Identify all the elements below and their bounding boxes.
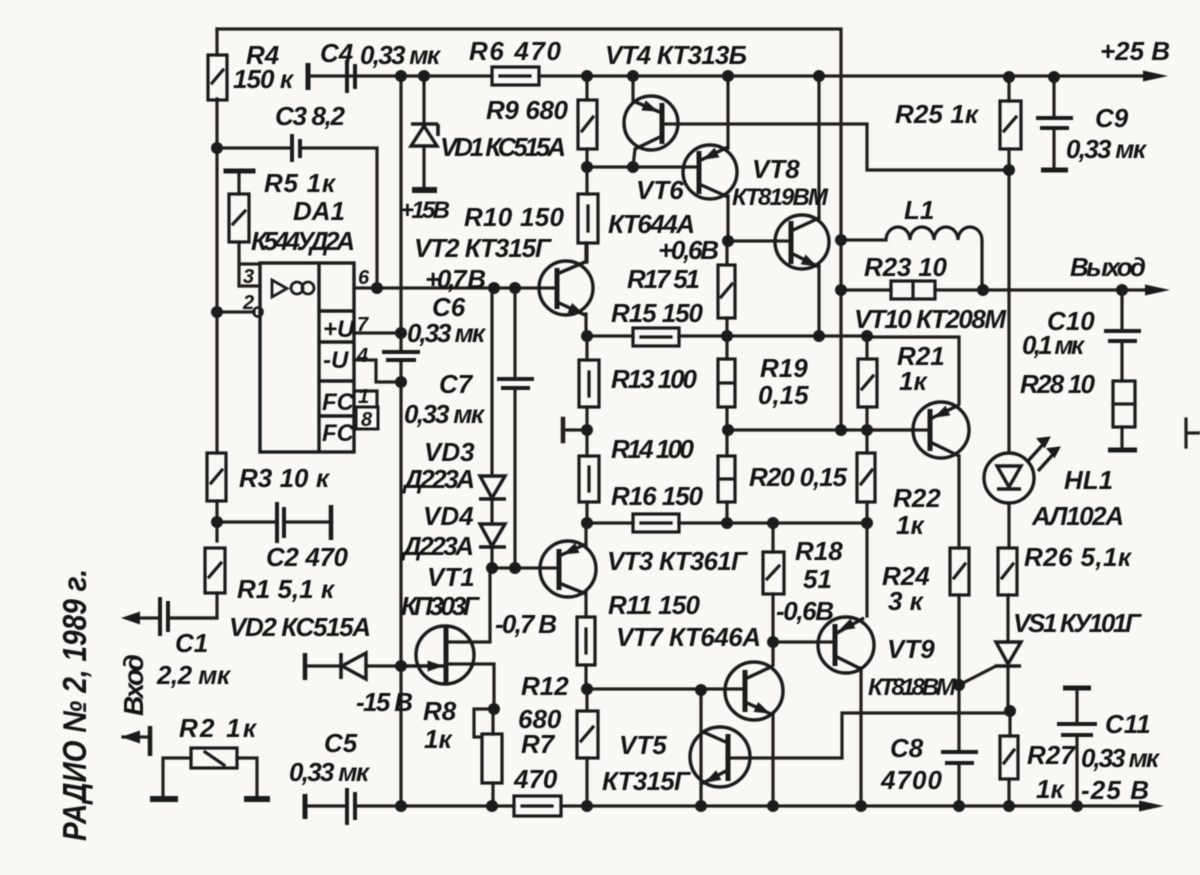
svg-text:150 к: 150 к [233, 64, 295, 94]
resistor R26 5.1k [998, 548, 1017, 595]
wire R5 leads [239, 174, 260, 286]
wire VT10 collector R24 C8 column [957, 456, 960, 806]
svg-text:+U: +U [323, 316, 355, 343]
svg-text:КТ819ВМ: КТ819ВМ [732, 184, 829, 211]
resistor R11 150 [577, 617, 595, 665]
wire VT1 drain [446, 568, 490, 642]
wire C3 compensation loop [217, 148, 377, 288]
svg-text:C5: C5 [324, 728, 358, 758]
wire output node line y430 [728, 428, 913, 431]
transistor VT1 FET [401, 626, 474, 684]
svg-text:-15 В: -15 В [356, 687, 413, 717]
wire VD1 leads [422, 76, 425, 189]
wire VT3 leads [584, 523, 587, 689]
svg-text:51: 51 [803, 564, 832, 594]
svg-text:R18: R18 [795, 536, 843, 566]
svg-text:0,33 мк: 0,33 мк [360, 40, 442, 70]
svg-text:6: 6 [358, 267, 370, 289]
svg-text:R16 150: R16 150 [611, 481, 704, 511]
wire VT9 base line [773, 640, 835, 643]
resistor R24 3k [950, 548, 969, 595]
wire pin7 lead [354, 331, 401, 334]
svg-text:R6 470: R6 470 [469, 36, 562, 66]
svg-text:VT5: VT5 [619, 730, 667, 760]
transistor VT8 [775, 215, 829, 269]
transistor VT2 [539, 261, 593, 315]
resistor R12 680 [577, 711, 598, 758]
resistor R18 51 [763, 552, 784, 594]
wire VT6 emitter collector verticals [726, 76, 729, 241]
resistor R20 0.15 [718, 456, 735, 502]
wire VT5 collector emitter vertical [699, 690, 702, 806]
resistor R28 10 [1113, 381, 1135, 427]
arrow -25V [1139, 801, 1164, 812]
resistor R9 680 [578, 100, 597, 149]
wire R17 leads [725, 241, 728, 336]
svg-text:4: 4 [356, 345, 368, 367]
svg-text:R9 680: R9 680 [486, 95, 569, 125]
svg-text:Д223А: Д223А [402, 464, 475, 494]
ground bar R28 bottom [1108, 448, 1137, 453]
svg-text:0,1 мк: 0,1 мк [1022, 330, 1086, 360]
resistor R23 10 [891, 281, 935, 299]
transistor VT6 [683, 145, 737, 199]
svg-text:3 к: 3 к [888, 586, 925, 616]
terminal bar input2 [148, 726, 153, 756]
svg-text:-0,7 В: -0,7 В [495, 609, 557, 639]
wire C11 leads [1075, 688, 1078, 806]
wire VD2 line [306, 664, 401, 667]
svg-text:R23 10: R23 10 [864, 252, 948, 282]
resistor R5 1k [226, 171, 253, 242]
capacitor C4 0.33 [308, 60, 355, 93]
resistor R4 150k [208, 55, 227, 100]
resistor R27 1k [1000, 736, 1018, 779]
svg-text:VT8: VT8 [752, 154, 800, 184]
wire L1 branch [841, 240, 982, 290]
svg-text:4700: 4700 [880, 765, 943, 795]
svg-text:VS1 КУ101Г: VS1 КУ101Г [1013, 608, 1142, 638]
svg-text:L1: L1 [904, 195, 934, 225]
svg-text:VT10 КТ208М: VT10 КТ208М [854, 304, 1007, 334]
svg-text:0,15: 0,15 [758, 380, 809, 410]
svg-text:-0,6В: -0,6В [776, 596, 834, 626]
op-amp pin2 circle [254, 308, 263, 317]
svg-text:R17 51: R17 51 [627, 264, 700, 294]
wire VT10 emitter path [867, 337, 959, 404]
svg-text:РАДИО № 2, 1989 г.: РАДИО № 2, 1989 г. [56, 569, 93, 841]
svg-text:C2 470: C2 470 [266, 542, 349, 572]
capacitor C5 0.33 [305, 788, 355, 825]
wire test stub y430 [564, 428, 587, 431]
wire R14 leads [585, 430, 588, 523]
svg-text:R20 0,15: R20 0,15 [749, 462, 848, 492]
wire VT3 base line [492, 566, 559, 569]
svg-text:7: 7 [357, 314, 369, 336]
wire R21 R22 leads [865, 336, 868, 523]
svg-text:0,33 мк: 0,33 мк [404, 399, 486, 429]
resistor R1 5.1k [205, 548, 225, 593]
svg-text:VD1 КС515А: VD1 КС515А [440, 132, 566, 162]
wire VT5 base network [727, 713, 1010, 758]
svg-text:C3 8,2: C3 8,2 [275, 101, 346, 131]
wire R13 leads [585, 336, 588, 430]
wire VT2 leads [584, 243, 587, 336]
svg-text:R28 10: R28 10 [1020, 369, 1096, 399]
resistor R22 1k [857, 453, 875, 502]
wire R27 bottom lead [1007, 779, 1010, 806]
capacitor C1 2.2 [160, 597, 168, 636]
LED HL1 [984, 437, 1060, 503]
wire lower emitter rail y523 [587, 521, 869, 524]
diode VD2 [341, 653, 366, 679]
svg-text:0,33 мк: 0,33 мк [289, 757, 371, 787]
arrow Vyhod output [1145, 285, 1170, 296]
resistor R15 150 [633, 328, 679, 346]
diode VD4 [479, 524, 506, 547]
svg-text:+0,7 В: +0,7 В [425, 264, 486, 294]
svg-text:К544УД2А: К544УД2А [251, 226, 355, 256]
svg-text:R10 150: R10 150 [464, 202, 565, 232]
capacitor C6 0.33 [382, 352, 420, 360]
wire VT10 base lead [867, 428, 930, 431]
svg-text:R5 1к: R5 1к [264, 168, 337, 198]
wire VT1 source [446, 664, 494, 709]
wire VT7 collector emitter verticals [771, 642, 774, 806]
svg-text:КТ818ВМ: КТ818ВМ [868, 674, 957, 701]
resistor R25 1k [1000, 101, 1021, 149]
svg-text:C4: C4 [320, 38, 354, 68]
svg-text:C11: C11 [1105, 709, 1151, 739]
wire R9 R10 column [585, 76, 588, 262]
svg-text:+0,6В: +0,6В [658, 235, 719, 265]
svg-text:1: 1 [358, 386, 369, 408]
svg-text:HL1: HL1 [1064, 465, 1113, 495]
svg-text:FC: FC [322, 389, 355, 416]
junction dots [395, 70, 407, 82]
wire emitter rail y336 [587, 334, 867, 337]
resistor R14 100 [579, 456, 599, 502]
svg-text:VT6: VT6 [636, 175, 684, 205]
svg-text:-25 В: -25 В [1081, 775, 1149, 805]
ground bar R2 right [244, 796, 270, 802]
svg-text:R11 150: R11 150 [608, 590, 701, 620]
resistor R6 470 [492, 67, 539, 85]
op-amp triangle infinity symbol [272, 280, 314, 297]
resistor R16 150 [633, 514, 679, 532]
wire VT8 collector emitter verticals [817, 76, 820, 336]
wire R8 tap and leads [474, 709, 494, 806]
svg-text:-U: -U [323, 347, 349, 374]
transistor VT5 [690, 727, 750, 787]
wire R25 leads [1007, 77, 1010, 170]
svg-text:1к: 1к [899, 366, 928, 396]
resistor R13 100 [579, 360, 599, 407]
resistor R8 1k [482, 734, 502, 783]
wire VD3 VD4 column [490, 288, 493, 568]
svg-text:C8: C8 [890, 733, 924, 763]
wire C2 leads [217, 520, 331, 523]
diode VD1 zener [411, 124, 438, 146]
terminal bar VD2 [303, 653, 308, 680]
svg-text:VT7 КТ646А: VT7 КТ646А [616, 622, 761, 652]
svg-text:R26 5,1к: R26 5,1к [1024, 542, 1133, 572]
wire VT9 collector vertical [859, 668, 862, 806]
svg-text:R7: R7 [521, 729, 556, 759]
terminal bar VD1 +15V [412, 187, 437, 193]
wire C1 input lead [141, 616, 217, 619]
resistor R2 1k [191, 748, 237, 768]
svg-text:R8: R8 [423, 696, 457, 726]
wire left input column [172, 29, 217, 618]
resistor R7 470 [514, 796, 561, 816]
op-amp pin8 box [356, 407, 378, 429]
svg-text:R2 1к: R2 1к [179, 713, 258, 743]
svg-text:VD3: VD3 [424, 437, 475, 467]
svg-text:R14 100: R14 100 [611, 434, 695, 464]
thyristor VS1 [995, 642, 1021, 666]
svg-text:КП303Г: КП303Г [401, 591, 480, 621]
svg-text:R12: R12 [521, 671, 569, 701]
svg-text:R22: R22 [893, 483, 941, 513]
svg-text:C9: C9 [1095, 103, 1129, 133]
wire +25V rail [310, 74, 1150, 77]
transistor VT10 [913, 402, 969, 458]
resistor R17 51 [718, 265, 735, 318]
op-amp DA1 body [260, 263, 354, 452]
svg-text:R13 100: R13 100 [611, 364, 698, 394]
capacitor C10 0.1 [1104, 331, 1141, 341]
svg-text:АЛ102А: АЛ102А [1031, 501, 1124, 531]
svg-text:DA1: DA1 [293, 196, 345, 226]
svg-text:R27: R27 [1027, 740, 1076, 770]
svg-text:R1 5,1 к: R1 5,1 к [237, 574, 336, 604]
svg-text:R25 1к: R25 1к [895, 99, 980, 129]
wire pin4 lead [354, 360, 401, 382]
wire VT4 emitter collector [633, 76, 635, 167]
svg-text:0,33 мк: 0,33 мк [1081, 743, 1161, 773]
wire pin2 lead [217, 310, 254, 313]
resistor R10 150 [578, 194, 598, 243]
svg-text:VT1: VT1 [427, 562, 475, 592]
ground bar R2 left [150, 796, 178, 802]
svg-text:FC: FC [322, 420, 355, 447]
capacitor C3 8.2 [292, 134, 300, 162]
svg-text:Выход: Выход [1070, 252, 1146, 282]
svg-text:Вход: Вход [118, 654, 149, 716]
arrow input2 [121, 731, 140, 744]
svg-text:VT3 КТ361Г: VT3 КТ361Г [607, 546, 748, 576]
transistor VT4 [624, 96, 678, 150]
svg-text:VT9: VT9 [887, 634, 935, 664]
svg-text:3: 3 [243, 266, 254, 288]
capacitor C7 0.33 [497, 379, 534, 388]
svg-text:VD2 КС515А: VD2 КС515А [229, 612, 371, 642]
svg-text:C7: C7 [439, 369, 474, 399]
svg-text:0,33 мк: 0,33 мк [407, 318, 487, 348]
arrow C1 input [121, 612, 140, 625]
wire C9 leads [1052, 77, 1055, 168]
wire feedback top line [217, 29, 841, 290]
wire R19 R20 leads [725, 336, 728, 523]
wire pin6 output line [354, 286, 557, 289]
svg-text:2,2 мк: 2,2 мк [156, 660, 232, 690]
capacitor C8 4700 [941, 752, 978, 763]
wire VT4 base bias line [662, 124, 1009, 170]
svg-text:VT4 КТ313Б: VT4 КТ313Б [605, 40, 747, 70]
wire input terminal 2 stub [123, 735, 148, 738]
svg-text:0,33 мк: 0,33 мк [1066, 134, 1148, 164]
svg-text:C1: C1 [175, 628, 208, 658]
svg-text:470: 470 [513, 764, 558, 794]
svg-text:+15В: +15В [400, 197, 450, 224]
svg-text:1к: 1к [896, 510, 925, 540]
wire output line Vyhod [841, 288, 1146, 291]
wire node line VT6 base [587, 165, 699, 168]
wire pin1 lead [354, 391, 377, 407]
wire R12 leads [585, 689, 588, 806]
svg-text:КТ315Г: КТ315Г [602, 766, 691, 796]
wire VS1 gate lead [959, 666, 996, 685]
wire R18 leads [771, 523, 774, 642]
resistor R19 0.15 [718, 359, 735, 407]
wire VT9 emitter vertical [865, 523, 868, 616]
transistor VT9 [818, 617, 874, 673]
svg-text:R15 150: R15 150 [611, 298, 704, 328]
svg-text:R19: R19 [760, 353, 808, 383]
wire VT8 base line [728, 239, 791, 242]
capacitor C9 0.33 [1036, 118, 1073, 170]
wire VS1 anode cathode leads [1006, 595, 1009, 711]
svg-text:+25 В: +25 В [1100, 36, 1170, 66]
capacitor C11 0.33 [1057, 688, 1097, 735]
svg-text:R3 10 к: R3 10 к [239, 463, 331, 493]
resistor R3 10k [207, 453, 226, 501]
svg-text:8: 8 [361, 409, 373, 431]
svg-text:VD4: VD4 [423, 501, 474, 531]
svg-text:VT2 КТ315Г: VT2 КТ315Г [414, 233, 552, 263]
wire R2 legs [163, 758, 257, 797]
wire bottom -25V bus [307, 804, 1150, 807]
transistor VT3 [540, 541, 596, 597]
diode VD3 [479, 476, 506, 499]
wire +15V column C6 C7 [399, 76, 402, 806]
inductor L1 [886, 227, 982, 243]
svg-text:1к: 1к [1036, 774, 1065, 804]
wire feedback to output node [839, 290, 842, 430]
svg-text:Д223А: Д223А [401, 531, 474, 561]
wire VT7 base line [587, 687, 745, 690]
arrow +25V [1143, 71, 1168, 82]
capacitor C2 470 [277, 502, 331, 543]
wire C7 column [513, 288, 516, 568]
wire C10 R28 column [1120, 290, 1123, 449]
transistor VT7 [725, 662, 783, 720]
svg-text:1к: 1к [424, 724, 453, 754]
wire right edge terminal [1186, 419, 1200, 447]
wire HL1 VS1 column [1007, 170, 1010, 548]
resistor R21 1k [858, 359, 877, 407]
svg-text:2: 2 [242, 292, 254, 314]
